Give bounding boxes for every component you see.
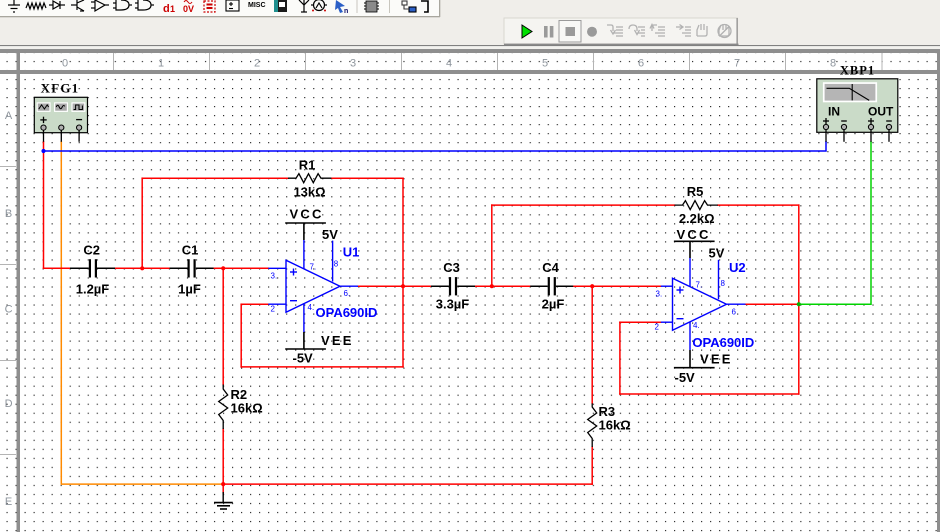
svg-text:-5V: -5V [675, 370, 696, 385]
svg-text:3.: 3. [656, 290, 663, 299]
svg-text:OUT: OUT [868, 105, 894, 119]
svg-text:3.: 3. [271, 272, 278, 281]
svg-text:13kΩ: 13kΩ [293, 185, 325, 200]
svg-text:VCC: VCC [677, 227, 711, 242]
svg-text:4: 4 [446, 58, 452, 70]
svg-text:6: 6 [732, 308, 737, 317]
svg-text:5V: 5V [709, 246, 725, 261]
svg-text:OPA690ID: OPA690ID [692, 335, 754, 350]
svg-text:1: 1 [170, 4, 175, 14]
svg-text:7.: 7. [696, 281, 703, 290]
svg-text:0: 0 [62, 58, 68, 70]
svg-text:8: 8 [721, 279, 726, 288]
svg-text:C1: C1 [182, 243, 199, 258]
svg-text:C: C [5, 304, 13, 316]
svg-text:3.3µF: 3.3µF [436, 297, 470, 312]
svg-text:4.: 4. [693, 321, 700, 330]
svg-text:1µF: 1µF [178, 281, 201, 296]
svg-text:6.: 6. [344, 289, 351, 298]
svg-text:B: B [5, 208, 12, 220]
svg-text:3: 3 [350, 58, 356, 70]
svg-text:7.: 7. [310, 263, 317, 272]
svg-text:C2: C2 [83, 243, 100, 258]
svg-text:IN: IN [828, 105, 840, 119]
svg-text:VCC: VCC [290, 207, 324, 222]
svg-text:XFG1: XFG1 [41, 81, 80, 96]
svg-text:6: 6 [638, 58, 644, 70]
svg-text:7: 7 [734, 58, 740, 70]
svg-text:A: A [5, 110, 13, 122]
svg-text:2.2kΩ: 2.2kΩ [679, 211, 715, 226]
svg-text:U1: U1 [343, 245, 360, 260]
svg-text:-5V: -5V [293, 351, 314, 366]
svg-text:MISC: MISC [248, 2, 266, 9]
svg-text:R5: R5 [687, 184, 704, 199]
svg-text:8: 8 [334, 260, 339, 269]
svg-text:8: 8 [830, 58, 836, 70]
svg-text:2: 2 [254, 58, 260, 70]
svg-text:2µF: 2µF [542, 297, 565, 312]
svg-text:5V: 5V [322, 227, 338, 242]
svg-text:0V: 0V [183, 4, 194, 14]
svg-text:2: 2 [271, 305, 276, 314]
svg-text:16kΩ: 16kΩ [599, 418, 631, 433]
svg-text:OPA690ID: OPA690ID [316, 305, 378, 320]
svg-text:VEE: VEE [700, 352, 733, 367]
svg-text:1: 1 [158, 58, 164, 70]
svg-text:2: 2 [655, 323, 660, 332]
svg-text:VEE: VEE [321, 333, 354, 348]
svg-text:4.: 4. [308, 303, 315, 312]
svg-text:U2: U2 [729, 260, 746, 275]
svg-text:n: n [344, 8, 348, 15]
svg-text:E: E [5, 496, 12, 508]
svg-text:C3: C3 [443, 260, 460, 275]
svg-text:R1: R1 [299, 158, 316, 173]
svg-text:5: 5 [542, 58, 548, 70]
svg-text:1.2µF: 1.2µF [76, 281, 110, 296]
svg-text:d: d [163, 3, 170, 15]
svg-text:D: D [5, 398, 13, 410]
svg-text:C4: C4 [542, 260, 559, 275]
svg-text:XBP1: XBP1 [840, 64, 875, 78]
svg-text:16kΩ: 16kΩ [231, 401, 263, 416]
